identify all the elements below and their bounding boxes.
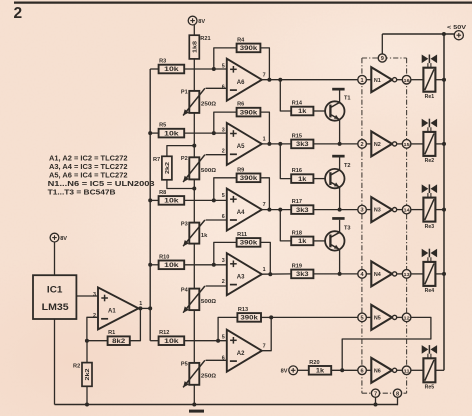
svg-text:2: 2 [222, 279, 225, 285]
pin 8 circle [393, 389, 401, 397]
svg-text:6: 6 [222, 214, 225, 220]
svg-text:8V: 8V [281, 369, 288, 375]
svg-text:10k: 10k [164, 198, 179, 205]
wire N5 out jog [342, 317, 431, 370]
svg-text:390k: 390k [240, 109, 258, 116]
wire P4 to P5 [193, 310, 195, 363]
wire branch to R18 [280, 210, 291, 241]
resistor R11 [237, 232, 261, 247]
op-amp A6 [222, 59, 266, 101]
wire A2 out up [262, 317, 271, 350]
svg-text:1k: 1k [298, 238, 307, 245]
svg-text:T1...T3 = BC547B: T1...T3 = BC547B [48, 189, 116, 196]
svg-text:1k: 1k [201, 233, 208, 239]
node rail Re2 [442, 142, 446, 146]
pot P2 [181, 155, 217, 182]
svg-text:10k: 10k [164, 66, 179, 73]
wire A3 out [262, 273, 291, 275]
wire branch to R14 [280, 80, 291, 111]
op-amp A2 [222, 330, 266, 372]
resistor R15 [291, 133, 313, 148]
node T2 emitter [338, 208, 342, 212]
svg-text:2k2: 2k2 [85, 368, 91, 380]
svg-text:P4: P4 [181, 287, 189, 293]
node bus R5 [148, 131, 152, 135]
pin 4 circle [358, 270, 367, 279]
svg-text:Re3: Re3 [425, 224, 435, 230]
page top rule [14, 1, 472, 3]
resistor R8 [159, 190, 185, 205]
wire to Re4 [411, 273, 424, 275]
svg-text:8: 8 [396, 391, 399, 397]
50V rail [443, 34, 445, 370]
resistor R9 [237, 167, 261, 182]
svg-text:N2: N2 [374, 142, 381, 148]
pot P1 [181, 88, 217, 115]
svg-text:2k2: 2k2 [165, 162, 171, 174]
node pin7 0V [374, 403, 378, 407]
wire P5 to 0V [193, 385, 195, 405]
wire R4 right [260, 48, 269, 80]
svg-text:R20: R20 [309, 360, 319, 366]
supply +50V [447, 25, 466, 40]
wire IC1 out to A1 +in [76, 295, 98, 297]
svg-text:9: 9 [381, 56, 384, 62]
op-amp A3 [222, 253, 266, 295]
svg-text:R21: R21 [200, 36, 210, 42]
node chain R7 top [192, 144, 196, 148]
node N6 input [340, 368, 344, 372]
transistor T2 [325, 163, 350, 188]
node A3 +in [212, 263, 216, 267]
supply +8V (R20) [281, 366, 298, 375]
svg-text:2: 2 [361, 142, 364, 148]
svg-text:6: 6 [222, 355, 225, 361]
node bus R8 [148, 198, 152, 202]
svg-text:3k3: 3k3 [296, 141, 309, 148]
svg-text:15: 15 [404, 142, 411, 148]
svg-text:R4: R4 [237, 37, 245, 43]
svg-text:10k: 10k [164, 262, 179, 269]
resistor R12 [159, 330, 185, 345]
node A2 out fb [269, 315, 273, 319]
wire R9 right [260, 178, 269, 210]
wire R4 left [214, 48, 237, 69]
svg-text:P2: P2 [181, 156, 188, 162]
wire to Re1 [411, 79, 424, 81]
resistor R2 [73, 363, 92, 387]
svg-text:7: 7 [374, 391, 377, 397]
svg-text:< 50V: < 50V [447, 25, 466, 31]
svg-text:7: 7 [263, 72, 266, 78]
resistor R13 [237, 307, 261, 322]
svg-text:3: 3 [222, 258, 225, 264]
svg-text:1k: 1k [298, 176, 307, 183]
pin 12 circle [402, 313, 411, 322]
ground bar [189, 410, 204, 413]
wire R13 left [218, 317, 237, 340]
svg-text:IC1: IC1 [47, 284, 63, 294]
svg-text:2: 2 [222, 149, 225, 155]
wire 50V top [382, 33, 454, 35]
svg-text:7: 7 [263, 343, 266, 349]
wire T1 collector [339, 91, 341, 103]
resistor R10 [159, 254, 185, 269]
svg-text:P5: P5 [181, 362, 188, 368]
svg-text:6: 6 [361, 368, 364, 374]
wire 8V to IC1 [54, 242, 56, 275]
wire to Re5 [411, 369, 424, 371]
wire Re5 to rail [435, 369, 444, 371]
svg-text:R15: R15 [292, 133, 302, 139]
op-amp A1 [93, 287, 142, 329]
pin 7 circle [371, 389, 379, 397]
figure number 2 [14, 5, 23, 22]
wire N1 to pin 16 [397, 79, 403, 81]
wire P5 wiper to A2 -in [206, 359, 227, 361]
wire pin9 up [381, 34, 383, 54]
node bus R10 [148, 263, 152, 267]
svg-text:13: 13 [404, 272, 411, 278]
diode Re1 [422, 55, 437, 68]
relay Re1 [423, 68, 435, 100]
resistor R17 [291, 199, 313, 214]
inverter N6 [371, 358, 396, 383]
svg-text:R19: R19 [292, 263, 302, 269]
svg-text:R7: R7 [153, 157, 160, 163]
wire pin2 to N2 [366, 143, 371, 145]
svg-text:11: 11 [404, 368, 411, 374]
wire P1 wiper to A6 -in [206, 87, 227, 89]
wire bus to R3 [150, 68, 158, 70]
svg-text:Re5: Re5 [425, 385, 435, 391]
wire Re2 to rail [435, 143, 444, 145]
IC5 boundary right [406, 58, 408, 393]
inverter N3 [371, 197, 396, 222]
wire R5 to +in [184, 132, 227, 134]
svg-text:Re1: Re1 [425, 94, 435, 100]
svg-text:8V: 8V [60, 236, 67, 242]
inverter N5 [371, 305, 396, 330]
wire A6 out [262, 79, 358, 81]
wire R12 to A2 +in [184, 340, 227, 342]
svg-text:2: 2 [93, 313, 96, 319]
wire pin8 to 0V [397, 397, 399, 405]
wire P3 to P4 [193, 244, 195, 289]
wire N3 to pin 14 [397, 209, 403, 211]
pin 13 circle [402, 270, 411, 279]
wire N6 to pin 11 [397, 369, 403, 371]
relay Re2 [423, 132, 435, 164]
wire R3 to +in [184, 68, 227, 70]
wire bus to R12 [150, 340, 158, 342]
supply +8V (IC1) [50, 233, 67, 242]
signal bus [149, 69, 151, 341]
svg-text:R18: R18 [292, 230, 302, 236]
wire R17 to N3 [313, 209, 357, 211]
svg-text:A4: A4 [237, 210, 245, 216]
resistor R14 [291, 101, 313, 116]
supply +8V (chain) [188, 16, 205, 25]
svg-text:P1: P1 [181, 90, 188, 96]
svg-text:R5: R5 [159, 123, 166, 129]
svg-text:N1...N6 = IC5 = ULN2003: N1...N6 = IC5 = ULN2003 [48, 181, 155, 188]
svg-text:A1, A2 = IC2 = TLC272: A1, A2 = IC2 = TLC272 [49, 156, 128, 163]
pin 2 circle [358, 140, 367, 149]
svg-text:1k8: 1k8 [192, 40, 198, 53]
node A6 out fb [267, 78, 271, 82]
IC5 boundary left [361, 58, 363, 393]
resistor R1 [108, 330, 130, 345]
pin 3 circle [358, 205, 367, 214]
inverter N1 [371, 67, 396, 92]
svg-text:5: 5 [222, 193, 225, 199]
wire R13 right [261, 316, 271, 318]
svg-text:A5, A6 = IC4 = TLC272: A5, A6 = IC4 = TLC272 [49, 173, 128, 180]
svg-text:LM35: LM35 [42, 302, 69, 312]
wire bus to R5 [150, 132, 158, 134]
wire R15 to N2 [313, 143, 357, 145]
wire N5 to pin 12 [397, 316, 403, 318]
svg-text:N5: N5 [374, 316, 381, 322]
svg-text:R10: R10 [159, 254, 169, 260]
wire pin3 to N3 [366, 209, 371, 211]
pin 14 circle [402, 205, 411, 214]
svg-text:390k: 390k [240, 45, 258, 52]
svg-text:3k3: 3k3 [296, 207, 309, 214]
resistor R21 [189, 35, 210, 59]
node A1 feedback [85, 339, 89, 343]
svg-text:P3: P3 [181, 221, 188, 227]
wire 8V to R21 [193, 25, 195, 35]
node A4 out fb [267, 208, 271, 212]
svg-text:T2: T2 [344, 163, 351, 169]
wire R11 right [260, 242, 270, 274]
node A1 output [138, 306, 142, 310]
node chain 0V [192, 403, 196, 407]
T1 collector rail bar [332, 88, 344, 91]
node T1 emitter [338, 142, 342, 146]
wire bus to R10 [150, 264, 158, 266]
pin 1 circle [358, 75, 367, 84]
IC5 boundary bottom [362, 392, 407, 394]
wire R8 to +in [184, 199, 227, 201]
svg-text:N4: N4 [374, 272, 381, 278]
0V bus [87, 404, 397, 406]
node chain R7 bottom [192, 187, 196, 191]
svg-text:R2: R2 [73, 363, 80, 369]
node 50V rail top [442, 32, 446, 36]
wire Re1 to rail [435, 79, 444, 81]
svg-text:R13: R13 [238, 307, 248, 313]
relay Re4 [423, 262, 435, 294]
node A6 +in [212, 67, 216, 71]
diode Re5 [422, 345, 437, 358]
svg-text:1k: 1k [298, 108, 307, 115]
svg-text:2: 2 [14, 5, 23, 22]
wire R11 left [214, 242, 237, 264]
svg-text:10k: 10k [164, 338, 179, 345]
wire P1 to P2 [193, 113, 195, 157]
inverter N2 [371, 131, 396, 156]
svg-text:R17: R17 [292, 199, 302, 205]
op-amp A4 [222, 189, 266, 231]
inverter N4 [371, 261, 396, 286]
svg-text:1: 1 [361, 78, 364, 84]
wire N4 to pin 13 [397, 273, 403, 275]
op-amp A5 [222, 123, 266, 165]
wire A5 out [262, 143, 291, 145]
wire R7 bottom [167, 180, 194, 189]
svg-text:A3, A4 = IC3 = TLC272: A3, A4 = IC3 = TLC272 [49, 164, 128, 171]
wire to R1 [87, 340, 108, 342]
wire pin7 to 0V [375, 397, 377, 404]
wire T3 emitter [339, 249, 341, 274]
wire R2 top [86, 341, 88, 363]
wire pin4 to N4 [366, 273, 371, 275]
svg-text:A1: A1 [108, 309, 116, 315]
svg-text:R1: R1 [108, 330, 115, 336]
resistor R6 [237, 102, 261, 117]
wire R21 to P1 [193, 59, 195, 91]
wire pin6 to N6 [366, 369, 371, 371]
svg-text:1k: 1k [316, 367, 325, 374]
node R2 0V [85, 403, 89, 407]
resistor R20 [309, 360, 331, 375]
resistor R18 [291, 230, 313, 245]
svg-text:5: 5 [222, 63, 225, 69]
pin 11 circle [402, 366, 411, 375]
diode Re2 [422, 119, 437, 132]
wire Re3 to rail [435, 209, 444, 211]
svg-text:T3: T3 [344, 225, 351, 231]
svg-text:12: 12 [404, 316, 411, 322]
svg-text:3: 3 [93, 292, 96, 298]
relay Re5 [423, 358, 435, 390]
node T3 emitter [338, 272, 342, 276]
svg-text:8k2: 8k2 [112, 338, 126, 345]
svg-text:10k: 10k [164, 130, 179, 137]
wire A1 -in loop [87, 317, 98, 340]
T3 collector rail bar [332, 217, 344, 220]
svg-text:390k: 390k [240, 175, 258, 182]
pot P5 [181, 360, 217, 387]
parts list text [48, 156, 155, 197]
svg-text:3k3: 3k3 [296, 271, 309, 278]
wire to Re3 [411, 209, 424, 211]
wire R14 to T1 base [313, 110, 325, 112]
wire R20 to pin6 [331, 369, 358, 371]
wire A4 out [262, 209, 291, 211]
IC5 boundary top [362, 57, 407, 59]
svg-text:500Ω: 500Ω [201, 168, 217, 174]
wire R2 bottom [86, 386, 88, 404]
node rail Re4 [442, 272, 446, 276]
transistor T1 [325, 96, 350, 121]
svg-text:390k: 390k [240, 315, 258, 322]
wire IC1 to 0V bus [55, 319, 88, 405]
node rail Re3 [442, 208, 446, 212]
wire P4 wiper to A3 -in [206, 285, 227, 287]
svg-text:1: 1 [263, 267, 266, 273]
wire R9 left [214, 178, 237, 201]
svg-text:16: 16 [404, 78, 411, 84]
wire to Re2 [411, 143, 424, 145]
svg-text:1: 1 [263, 137, 266, 143]
svg-text:5: 5 [361, 316, 364, 322]
pin 16 circle [402, 75, 411, 84]
wire T1 emitter [339, 120, 341, 144]
svg-text:R16: R16 [292, 168, 302, 174]
resistor R5 [159, 123, 185, 138]
svg-text:R6: R6 [237, 102, 244, 108]
wire A1 out to bus [139, 307, 151, 309]
svg-text:500Ω: 500Ω [201, 299, 217, 305]
svg-text:250Ω: 250Ω [201, 102, 217, 108]
svg-text:250Ω: 250Ω [201, 374, 217, 380]
wire R6 left [214, 112, 237, 133]
svg-text:Re4: Re4 [425, 288, 435, 294]
wire Re4 to rail [435, 273, 444, 275]
wire 8V to R20 [298, 369, 309, 371]
svg-text:N6: N6 [374, 368, 381, 374]
svg-text:14: 14 [404, 208, 411, 214]
svg-text:390k: 390k [240, 240, 258, 247]
svg-text:Re2: Re2 [425, 158, 435, 164]
svg-text:A2: A2 [237, 351, 245, 357]
wire T3 collector [339, 220, 341, 233]
wire R10 to +in [184, 264, 227, 266]
wire P2 wiper to A5 -in [206, 154, 227, 156]
wire A2 out to N5 [271, 316, 358, 318]
node A5 +in [212, 131, 216, 135]
wire N2 to pin 15 [397, 143, 403, 145]
resistor R7 [153, 156, 172, 180]
wire P2 to P3 [193, 179, 195, 222]
node A3 out fb [268, 272, 272, 276]
wire T2 collector [339, 158, 341, 171]
node A5 branch [278, 142, 282, 146]
node A4 +in [212, 198, 216, 202]
wire bus to R8 [150, 199, 158, 201]
svg-text:3: 3 [361, 208, 364, 214]
svg-text:R11: R11 [237, 232, 247, 238]
svg-text:A3: A3 [237, 275, 245, 281]
relay Re3 [423, 198, 435, 230]
wire pin5 to N5 [366, 316, 371, 318]
IC1 LM35 box [33, 275, 76, 319]
resistor R19 [291, 263, 313, 278]
wire R16 to T2 base [313, 178, 325, 180]
svg-text:N1: N1 [374, 78, 381, 84]
pin 5 circle [358, 313, 367, 322]
svg-text:R3: R3 [159, 59, 166, 65]
svg-text:7: 7 [263, 202, 266, 208]
wire R19 to N4 [313, 273, 357, 275]
svg-text:R8: R8 [159, 190, 166, 196]
wire pin1 to N1 [366, 79, 371, 81]
diode Re4 [422, 249, 437, 262]
wire R6 right [260, 112, 269, 144]
svg-text:R14: R14 [292, 101, 303, 107]
resistor R4 [237, 37, 261, 52]
pot P4 [181, 286, 217, 313]
svg-text:1: 1 [139, 301, 142, 307]
pin 15 circle [402, 140, 411, 149]
resistor R16 [291, 168, 313, 183]
wire R18 to T3 base [313, 240, 325, 242]
pin 9 circle [378, 54, 386, 62]
